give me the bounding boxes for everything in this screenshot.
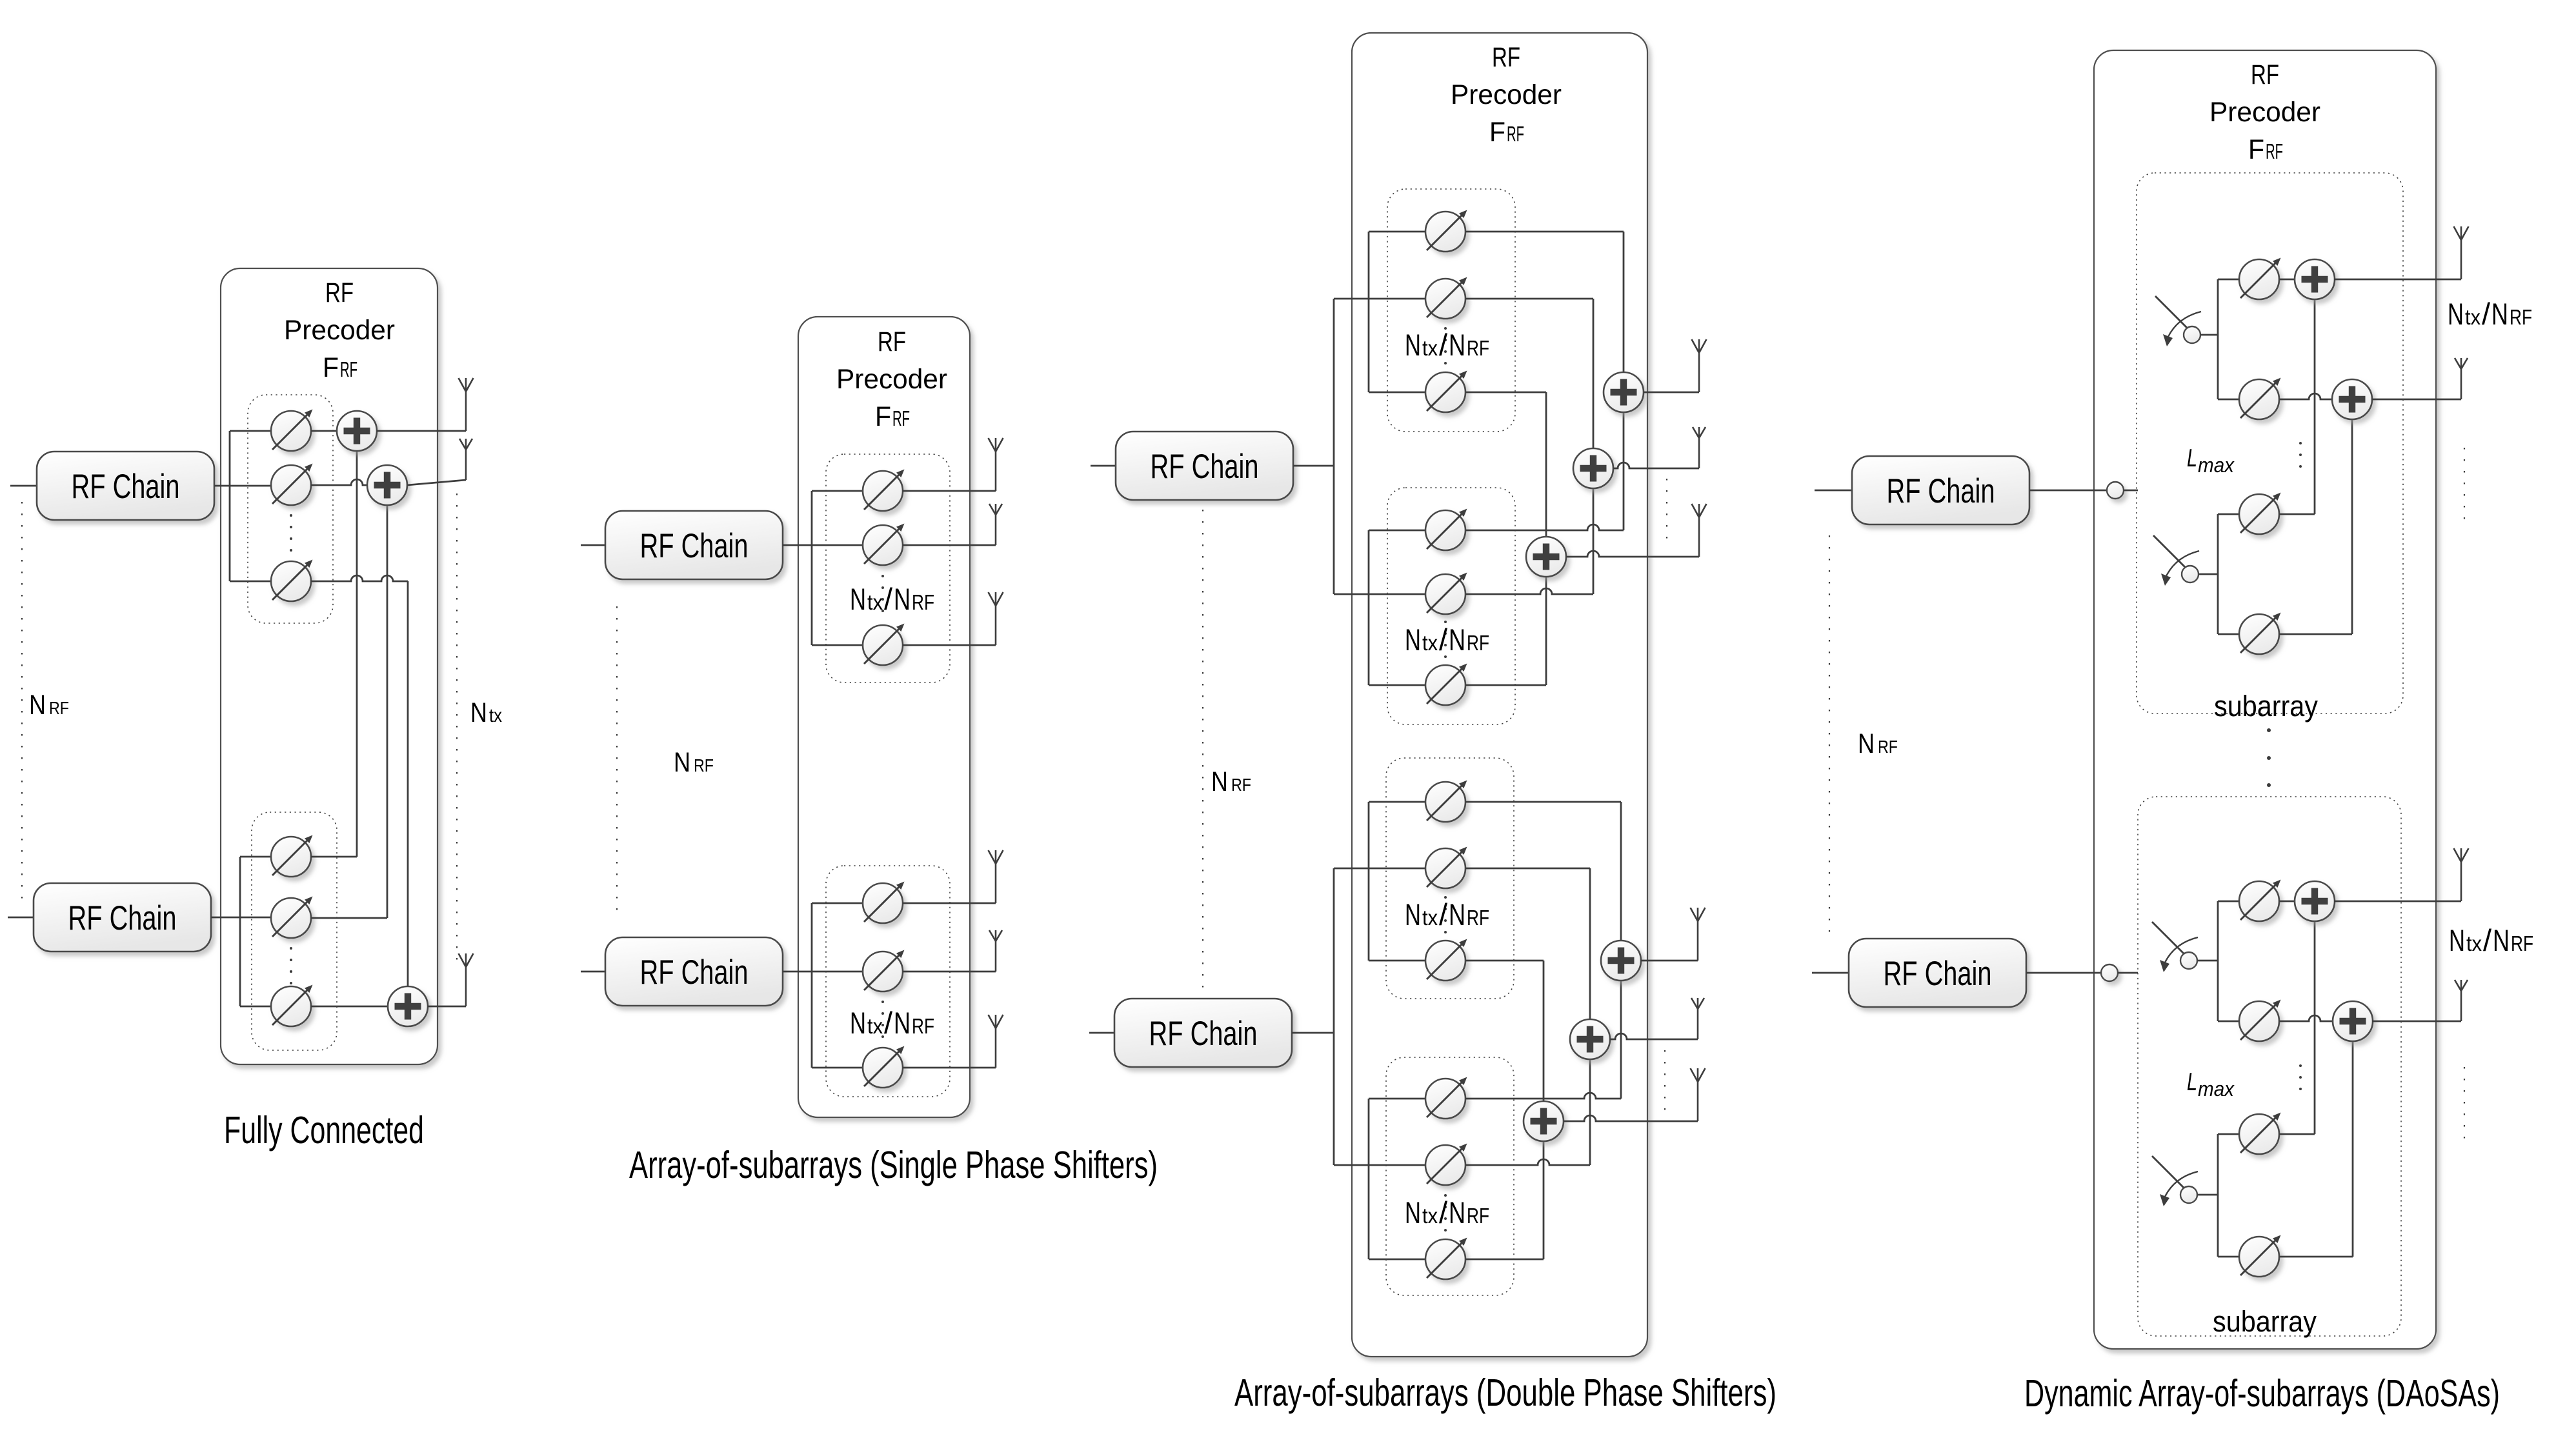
wire PS6 to antenna 6 P2 — [903, 1067, 996, 1069]
wire node stub P4 chain1 — [2124, 490, 2138, 492]
vertical splitter P2-G1 — [811, 491, 813, 645]
vertical to summer S6 top P3 — [1543, 961, 1545, 1101]
svg-text:RF: RF — [1467, 336, 1489, 360]
wire PS2 to summer S2 P1 — [311, 479, 367, 485]
RF precoder box P3 — [1352, 33, 1647, 1357]
antenna 1 P2 — [989, 438, 1003, 491]
vertical splitter P1-G2 — [239, 857, 241, 1006]
wire SA2-1 east P3 — [1465, 524, 1624, 530]
vertical wire PS3 to summer S3 P1 — [407, 581, 409, 986]
wire switch SW2 out P4 — [2199, 573, 2218, 575]
wire to PS row SA1-2 P3 — [1334, 298, 1425, 300]
svg-text:RF: RF — [1878, 737, 1898, 757]
label N_tx P1 — [470, 697, 502, 728]
wire SA4-2 east P3 — [1465, 1159, 1590, 1165]
wire SA1-3 east P3 — [1465, 392, 1546, 394]
node circle chain 1 P4 — [2107, 482, 2124, 499]
RF chain 1 P3 — [1116, 432, 1293, 500]
svg-text:RF Chain: RF Chain — [640, 527, 749, 565]
svg-text:N: N — [2491, 297, 2508, 331]
wire switch SW4 out P4 — [2197, 1194, 2218, 1196]
vertical to summer S1 top P3 — [1623, 232, 1625, 372]
svg-text:N: N — [1858, 728, 1875, 759]
phase shifter PS6 P2 — [863, 1046, 905, 1088]
svg-text:RF Chain: RF Chain — [1887, 472, 1995, 510]
svg-text:N: N — [850, 1006, 866, 1040]
wire to PS4 P2 — [812, 903, 863, 904]
dots SA1 P3 — [1444, 327, 1447, 364]
label N_RF P2 — [674, 747, 714, 778]
wire to PS SA4-1 P3 — [1369, 1098, 1425, 1100]
svg-text:N: N — [2493, 923, 2510, 957]
label N_RF P1 — [29, 690, 69, 721]
svg-text:N: N — [2448, 297, 2464, 331]
svg-text:/: / — [1439, 897, 1448, 932]
wire to PS1 P4 — [2218, 279, 2239, 281]
phase shifter PS6 P4 — [2239, 1000, 2281, 1042]
phase shifter group box P1-G1 — [248, 395, 333, 623]
wire to PS8 P4 — [2218, 1256, 2239, 1258]
phase shifter SA4-2 P3 — [1425, 1144, 1467, 1186]
phase shifter PS4 P4 — [2239, 613, 2281, 655]
svg-text:F: F — [2248, 134, 2264, 165]
svg-text:RF: RF — [912, 590, 934, 614]
wire to PS SA4-3 P3 — [1369, 1259, 1425, 1261]
svg-text:N: N — [1211, 766, 1228, 797]
svg-text:RF: RF — [1507, 122, 1524, 146]
wire SA2-3 east P3 — [1465, 684, 1546, 686]
svg-text:RF: RF — [2251, 59, 2279, 90]
phase shifter PS3 P2 — [863, 624, 905, 666]
wire SA1-2 east P3 — [1465, 298, 1593, 300]
svg-text:Precoder: Precoder — [1451, 79, 1562, 110]
svg-text:RF: RF — [1467, 1204, 1489, 1228]
svg-text:max: max — [2198, 1077, 2235, 1101]
wire summer SB to antenna 2 P4 — [2371, 399, 2461, 401]
wire switch SW1 out P4 — [2200, 334, 2218, 336]
wire PS4 east P4 — [2279, 633, 2352, 635]
summer S3 P3 — [1526, 537, 1566, 577]
wire PS1 to summer S1 P1 — [311, 430, 337, 432]
phase shifter SA1-3 P3 — [1425, 371, 1467, 413]
svg-text:/: / — [2483, 923, 2492, 957]
subarray box P4-SB2 — [2138, 797, 2401, 1336]
vertical to summer S4 bottom P3 — [1620, 981, 1622, 1099]
svg-text:N: N — [894, 582, 911, 616]
vertical summer SD to PS8 P4 — [2352, 1041, 2354, 1257]
antenna 4 P2 — [989, 850, 1003, 903]
dots between PS6 and PS7 P4 — [2299, 1064, 2302, 1090]
wire to PS row SA4-2 P3 — [1334, 1164, 1425, 1166]
svg-text:F: F — [875, 401, 891, 432]
wire summer S2 to antenna 2 P1 — [407, 480, 466, 485]
phase shifter SA2-1 P3 — [1425, 509, 1467, 551]
svg-text:RF Chain: RF Chain — [1884, 955, 1992, 993]
vertical to summer S2 top P3 — [1593, 299, 1595, 448]
wire summer S2 to antenna 2 P3 — [1613, 463, 1699, 468]
input stub to RF chain 1 P3 — [1091, 465, 1116, 467]
subarray box P3-SA4 — [1386, 1057, 1514, 1295]
wire PS3 east P4 — [2279, 514, 2315, 515]
dots between PS5 and PS6 P1 — [290, 947, 292, 984]
svg-text:Precoder: Precoder — [284, 315, 395, 346]
RF chain 2 P2 — [605, 937, 783, 1006]
dots between subarray boxes P4 — [2267, 728, 2271, 787]
wire to PS SA1-3 P3 — [1369, 392, 1425, 394]
antenna 4 P3 — [1691, 908, 1706, 961]
svg-text:RF Chain: RF Chain — [68, 899, 177, 937]
svg-text:N: N — [1449, 623, 1465, 657]
phase shifter SA1-2 P3 — [1425, 277, 1467, 319]
RF chain 1 P2 — [605, 511, 783, 579]
antenna ellipsis dotted line P4 bottom — [2464, 1067, 2465, 1148]
wire to PS row SA2-2 P3 — [1334, 593, 1425, 595]
svg-text:/: / — [2482, 297, 2491, 331]
wire to PS SA2-3 P3 — [1369, 684, 1425, 686]
P3: RF Precoder F_RF title — [1451, 42, 1562, 148]
svg-text:subarray: subarray — [2214, 690, 2318, 723]
wire to PS3 P2 — [812, 644, 863, 646]
wire PS4 to antenna 4 P2 — [903, 903, 996, 904]
phase shifter PS2 P4 — [2239, 378, 2281, 420]
wire PS5 to antenna 5 P2 — [903, 971, 996, 973]
P2: RF Precoder F_RF title — [836, 326, 947, 432]
vertical to summer S4 top P3 — [1620, 802, 1622, 941]
wire PS1 to antenna 1 P2 — [903, 490, 996, 492]
wire PS2 to summer SB P4 — [2279, 394, 2333, 399]
wire summer SD to antenna 4 P4 — [2372, 1021, 2461, 1022]
vertical to summer S1 bottom P3 — [1623, 412, 1625, 530]
dots SA2 P3 — [1444, 621, 1447, 658]
RF chain 1 P1 — [37, 452, 214, 520]
phase shifter SA1-1 P3 — [1425, 210, 1467, 252]
svg-text:/: / — [1439, 1195, 1448, 1230]
summer S1 P1 — [337, 411, 377, 451]
vertical to summer S2 bottom P3 — [1593, 488, 1595, 594]
wire PS5 to summer SC P4 — [2279, 901, 2295, 903]
svg-text:/: / — [884, 1006, 893, 1040]
phase shifter PS7 P4 — [2239, 1113, 2281, 1155]
phase shifter PS1 P2 — [863, 470, 905, 512]
antenna 4 P4 — [2455, 980, 2468, 1021]
svg-text:tx: tx — [1422, 906, 1438, 930]
phase shifter PS6 P1 — [271, 985, 313, 1027]
input stub to RF chain 2 P4 — [1812, 972, 1849, 974]
svg-text:F: F — [323, 352, 339, 383]
svg-text:max: max — [2198, 454, 2235, 477]
svg-text:L: L — [2187, 1068, 2197, 1096]
wire switch SW3 out P4 — [2197, 960, 2218, 962]
svg-text:F: F — [1489, 117, 1505, 148]
summer S3 P1 — [388, 986, 428, 1026]
wire SA3-3 east P3 — [1465, 960, 1544, 962]
N_tx dotted line P1 — [456, 494, 458, 968]
vertical wire PS4 to summer S1 P1 — [356, 451, 358, 857]
summer SC P4 — [2295, 881, 2335, 921]
svg-text:RF: RF — [694, 755, 714, 775]
vertical wire PS5 to summer S2 P1 — [387, 505, 388, 918]
svg-text:RF: RF — [2266, 139, 2283, 163]
svg-text:tx: tx — [2465, 305, 2480, 329]
svg-text:tx: tx — [489, 705, 502, 726]
RF chain 1 P4 — [1852, 456, 2029, 524]
subarray box P4-SB1 — [2137, 173, 2403, 713]
vertical to summer S3 top P3 — [1545, 392, 1547, 537]
wire PS3 to antenna 3 P2 — [903, 644, 996, 646]
label N_RF P3 — [1211, 766, 1251, 797]
node circle chain 2 P4 — [2101, 964, 2118, 981]
wire to PS4 P4 — [2218, 633, 2239, 635]
input stub to RF chain 1 P4 — [1815, 490, 1852, 492]
wire to PS SA2-1 P3 — [1369, 530, 1425, 532]
svg-text:N: N — [470, 697, 487, 728]
wire to PS4 P1 — [240, 856, 271, 858]
wire RF chain 2 to node P4 — [2026, 972, 2101, 974]
wire SA4-3 east P3 — [1465, 1259, 1544, 1261]
phase shifter PS4 P1 — [271, 835, 313, 877]
wire RF chain 2 to PS5 P1 — [211, 917, 271, 919]
antenna 2 P3 — [1693, 427, 1706, 468]
wire RF chain 1 to node P4 — [2029, 490, 2107, 492]
N_RF dotted line P1 — [21, 502, 23, 908]
svg-text:Fully Connected: Fully Connected — [224, 1109, 424, 1152]
wire RF chain 2 to PS5 P2 — [783, 971, 863, 973]
svg-text:/: / — [1439, 328, 1448, 362]
svg-text:tx: tx — [2466, 932, 2482, 955]
summer S1 P3 — [1604, 372, 1644, 412]
svg-text:RF: RF — [2510, 305, 2532, 329]
switch SW1 P4 — [2155, 296, 2201, 346]
phase shifter SA2-2 P3 — [1425, 573, 1467, 615]
wire node stub P4 chain2 — [2118, 972, 2138, 974]
RF precoder box P2 — [798, 317, 970, 1117]
wire PS6 to summer S3 P1 — [311, 1006, 388, 1008]
label N_tx/N_RF P4 bottom — [2449, 923, 2533, 957]
dots between PS2 and PS3 P1 — [290, 514, 292, 552]
phase shifter PS5 P2 — [863, 950, 905, 992]
summer SB P4 — [2332, 379, 2372, 419]
dots between PS5 and PS6 P2 — [881, 1001, 884, 1038]
subarray box P3-SA3 — [1386, 758, 1514, 999]
svg-text:Array-of-subarrays (Single Pha: Array-of-subarrays (Single Phase Shifter… — [629, 1144, 1158, 1186]
vertical splitter chain2 P3 — [1333, 868, 1335, 1165]
svg-text:Array-of-subarrays (Double Pha: Array-of-subarrays (Double Phase Shifter… — [1234, 1371, 1776, 1414]
antenna 5 P2 — [989, 930, 1002, 972]
vertical summer SC to PS7 P4 — [2314, 921, 2316, 1134]
summer S2 P3 — [1573, 448, 1613, 488]
svg-text:N: N — [2449, 923, 2465, 957]
svg-text:/: / — [1439, 623, 1448, 657]
dots SA4 P3 — [1444, 1194, 1447, 1232]
svg-text:tx: tx — [867, 590, 883, 614]
wire RF chain 1 to PS2 P2 — [783, 544, 863, 546]
label N_tx/N_RF P4 top — [2448, 297, 2532, 331]
vertical summer SA to PS3 P4 — [2314, 299, 2316, 514]
wire summer S1 to antenna 1 P1 — [377, 430, 466, 432]
svg-text:tx: tx — [867, 1014, 883, 1038]
antenna 1 P4 — [2454, 226, 2469, 279]
RF precoder box P1 — [221, 268, 438, 1064]
wire summer SA to antenna 1 P4 — [2334, 279, 2461, 281]
wire to PS1 P2 — [812, 490, 863, 492]
svg-text:RF Chain: RF Chain — [1151, 448, 1259, 486]
wire to PS6 P2 — [812, 1067, 863, 1069]
summer SA P4 — [2295, 259, 2335, 299]
dots SA3 P3 — [1444, 896, 1447, 933]
wire to PS SA1-1 P3 — [1369, 231, 1425, 233]
wire SA4-1 east P3 — [1465, 1093, 1621, 1099]
wire PS7 east P4 — [2279, 1133, 2315, 1135]
wire summer S1 to antenna 1 P3 — [1644, 392, 1699, 394]
antenna 1 P1 — [459, 378, 474, 431]
wire PS4 east P1 — [311, 856, 357, 858]
svg-text:RF: RF — [1231, 775, 1251, 795]
antenna 6 P2 — [989, 1015, 1003, 1068]
wire to PS5 P4 — [2218, 901, 2239, 903]
wire summer S3 to antenna 3 P1 — [428, 1006, 466, 1008]
antenna 3 P1 — [459, 953, 474, 1006]
phase shifter PS4 P2 — [863, 882, 905, 924]
svg-text:RF: RF — [878, 326, 906, 357]
wire RF chain 1 to PS2 P1 — [214, 485, 271, 487]
svg-text:RF: RF — [340, 357, 357, 381]
wire SA1-1 east P3 — [1465, 231, 1624, 233]
phase shifter PS3 P1 — [271, 560, 313, 602]
wire to PS6 P4 — [2218, 1021, 2239, 1022]
phase shifter PS8 P4 — [2239, 1235, 2281, 1277]
vertical splitter chain1 P3 — [1333, 299, 1335, 594]
subarray group box P2-G2 — [826, 866, 950, 1097]
svg-text:Precoder: Precoder — [2209, 97, 2320, 128]
wire to PS row SA3-2 P3 — [1334, 868, 1425, 870]
wire to PS2 P4 — [2218, 399, 2239, 401]
svg-text:RF Chain: RF Chain — [1149, 1015, 1258, 1053]
svg-text:N: N — [894, 1006, 911, 1040]
P1: RF Precoder F_RF title — [284, 277, 395, 383]
wire PS2 to antenna 2 P2 — [903, 544, 996, 546]
phase shifter PS1 P1 — [271, 410, 313, 452]
wire to PS3 P4 — [2218, 514, 2239, 515]
antenna 5 P3 — [1691, 998, 1704, 1039]
phase shifter SA3-3 P3 — [1425, 939, 1467, 981]
input stub to RF chain 2 P2 — [581, 971, 605, 973]
vertical to summer S3 bottom P3 — [1545, 577, 1547, 685]
svg-text:L: L — [2187, 444, 2197, 472]
phase shifter PS2 P1 — [271, 464, 313, 506]
svg-text:N: N — [1405, 328, 1421, 362]
vertical splitter SA3 P3 — [1368, 802, 1370, 961]
wire PS1 to summer SA P4 — [2279, 279, 2295, 281]
svg-text:RF: RF — [2511, 932, 2533, 955]
antenna 2 P2 — [989, 504, 1002, 545]
label N_RF P4 — [1858, 728, 1898, 759]
switch SW4 P4 — [2152, 1156, 2198, 1206]
summer S4 P3 — [1601, 941, 1641, 981]
vertical splitter P2-G2 — [811, 903, 813, 1068]
summer S5 P3 — [1570, 1019, 1610, 1059]
wire to PS SA3-1 P3 — [1369, 801, 1425, 803]
svg-text:tx: tx — [1422, 1204, 1438, 1228]
antenna ellipsis dotted line P3 top — [1666, 479, 1667, 548]
phase shifter PS2 P2 — [863, 524, 905, 566]
svg-text:RF: RF — [912, 1014, 934, 1038]
svg-text:RF: RF — [1467, 631, 1489, 655]
svg-text:RF Chain: RF Chain — [640, 953, 749, 992]
input stub to RF chain 1 P1 — [10, 485, 37, 487]
vertical to summer S5 bottom P3 — [1589, 1059, 1591, 1165]
summer SD P4 — [2333, 1001, 2373, 1041]
vertical to summer S6 bottom P3 — [1543, 1141, 1545, 1259]
phase shifter PS5 P4 — [2239, 880, 2281, 922]
label N_tx/N_RF P2-G2 — [850, 1006, 934, 1040]
subarray box P3-SA2 — [1387, 488, 1515, 724]
svg-text:tx: tx — [1422, 336, 1438, 360]
antenna 3 P3 — [1692, 504, 1707, 557]
wire RF chain 1 out P3 — [1293, 465, 1334, 467]
svg-text:N: N — [1405, 623, 1421, 657]
antenna 2 P1 — [459, 439, 472, 480]
vertical splitter SA4 P3 — [1368, 1099, 1370, 1259]
wire PS3 east P1 — [311, 575, 408, 581]
svg-text:N: N — [1449, 1195, 1465, 1230]
phase shifter group box P1-G2 — [252, 812, 337, 1050]
phase shifter PS3 P4 — [2239, 493, 2281, 535]
wire PS8 east P4 — [2279, 1256, 2353, 1258]
svg-text:N: N — [674, 747, 690, 778]
wire summer SC to antenna 3 P4 — [2334, 901, 2461, 903]
antenna 3 P4 — [2454, 848, 2469, 901]
phase shifter SA4-3 P3 — [1425, 1238, 1467, 1280]
RF chain 2 P3 — [1114, 999, 1292, 1067]
svg-text:RF: RF — [49, 698, 69, 718]
switch SW2 P4 — [2153, 535, 2199, 586]
vertical summer SB to PS4 P4 — [2351, 419, 2353, 634]
summer S2 P1 — [367, 465, 407, 505]
wire to PS1 P1 — [230, 430, 271, 432]
antenna 6 P3 — [1691, 1068, 1706, 1121]
wire PS6 to summer SD P4 — [2279, 1015, 2333, 1021]
phase shifter SA4-1 P3 — [1425, 1077, 1467, 1119]
RF chain 2 P1 — [34, 883, 211, 952]
vertical splitter SW2 P4 — [2217, 514, 2219, 634]
vertical splitter SA1 P3 — [1368, 232, 1370, 392]
wire summer S3 to antenna 3 P3 — [1566, 551, 1699, 557]
subarray group box P2-G1 — [826, 454, 950, 683]
RF precoder box P4 — [2094, 50, 2436, 1349]
svg-text:RF: RF — [892, 406, 910, 430]
wire SA3-1 east P3 — [1465, 801, 1621, 803]
svg-text:RF: RF — [1492, 42, 1520, 73]
dots between PS2 and PS3 P4 — [2299, 442, 2302, 468]
svg-text:tx: tx — [1422, 631, 1438, 655]
phase shifter SA3-2 P3 — [1425, 847, 1467, 889]
svg-text:N: N — [1449, 328, 1465, 362]
phase shifter SA2-3 P3 — [1425, 664, 1467, 706]
phase shifter PS1 P4 — [2239, 258, 2281, 300]
vertical splitter SW1 P4 — [2217, 279, 2219, 399]
antenna ellipsis dotted line P4 top — [2464, 448, 2465, 524]
vertical splitter P1-G1 — [229, 431, 231, 581]
wire to PS7 P4 — [2218, 1133, 2239, 1135]
input stub to RF chain 2 P1 — [8, 917, 34, 919]
antenna 2 P4 — [2455, 358, 2468, 399]
P4: RF Precoder F_RF title — [2209, 59, 2320, 165]
wire to PS6 P1 — [240, 1006, 271, 1008]
input stub to RF chain 1 P2 — [581, 544, 605, 546]
antenna ellipsis dotted line P3 bottom — [1664, 1050, 1665, 1112]
label N_tx/N_RF P3-SA2 — [1405, 623, 1489, 657]
summer S6 P3 — [1524, 1101, 1564, 1141]
